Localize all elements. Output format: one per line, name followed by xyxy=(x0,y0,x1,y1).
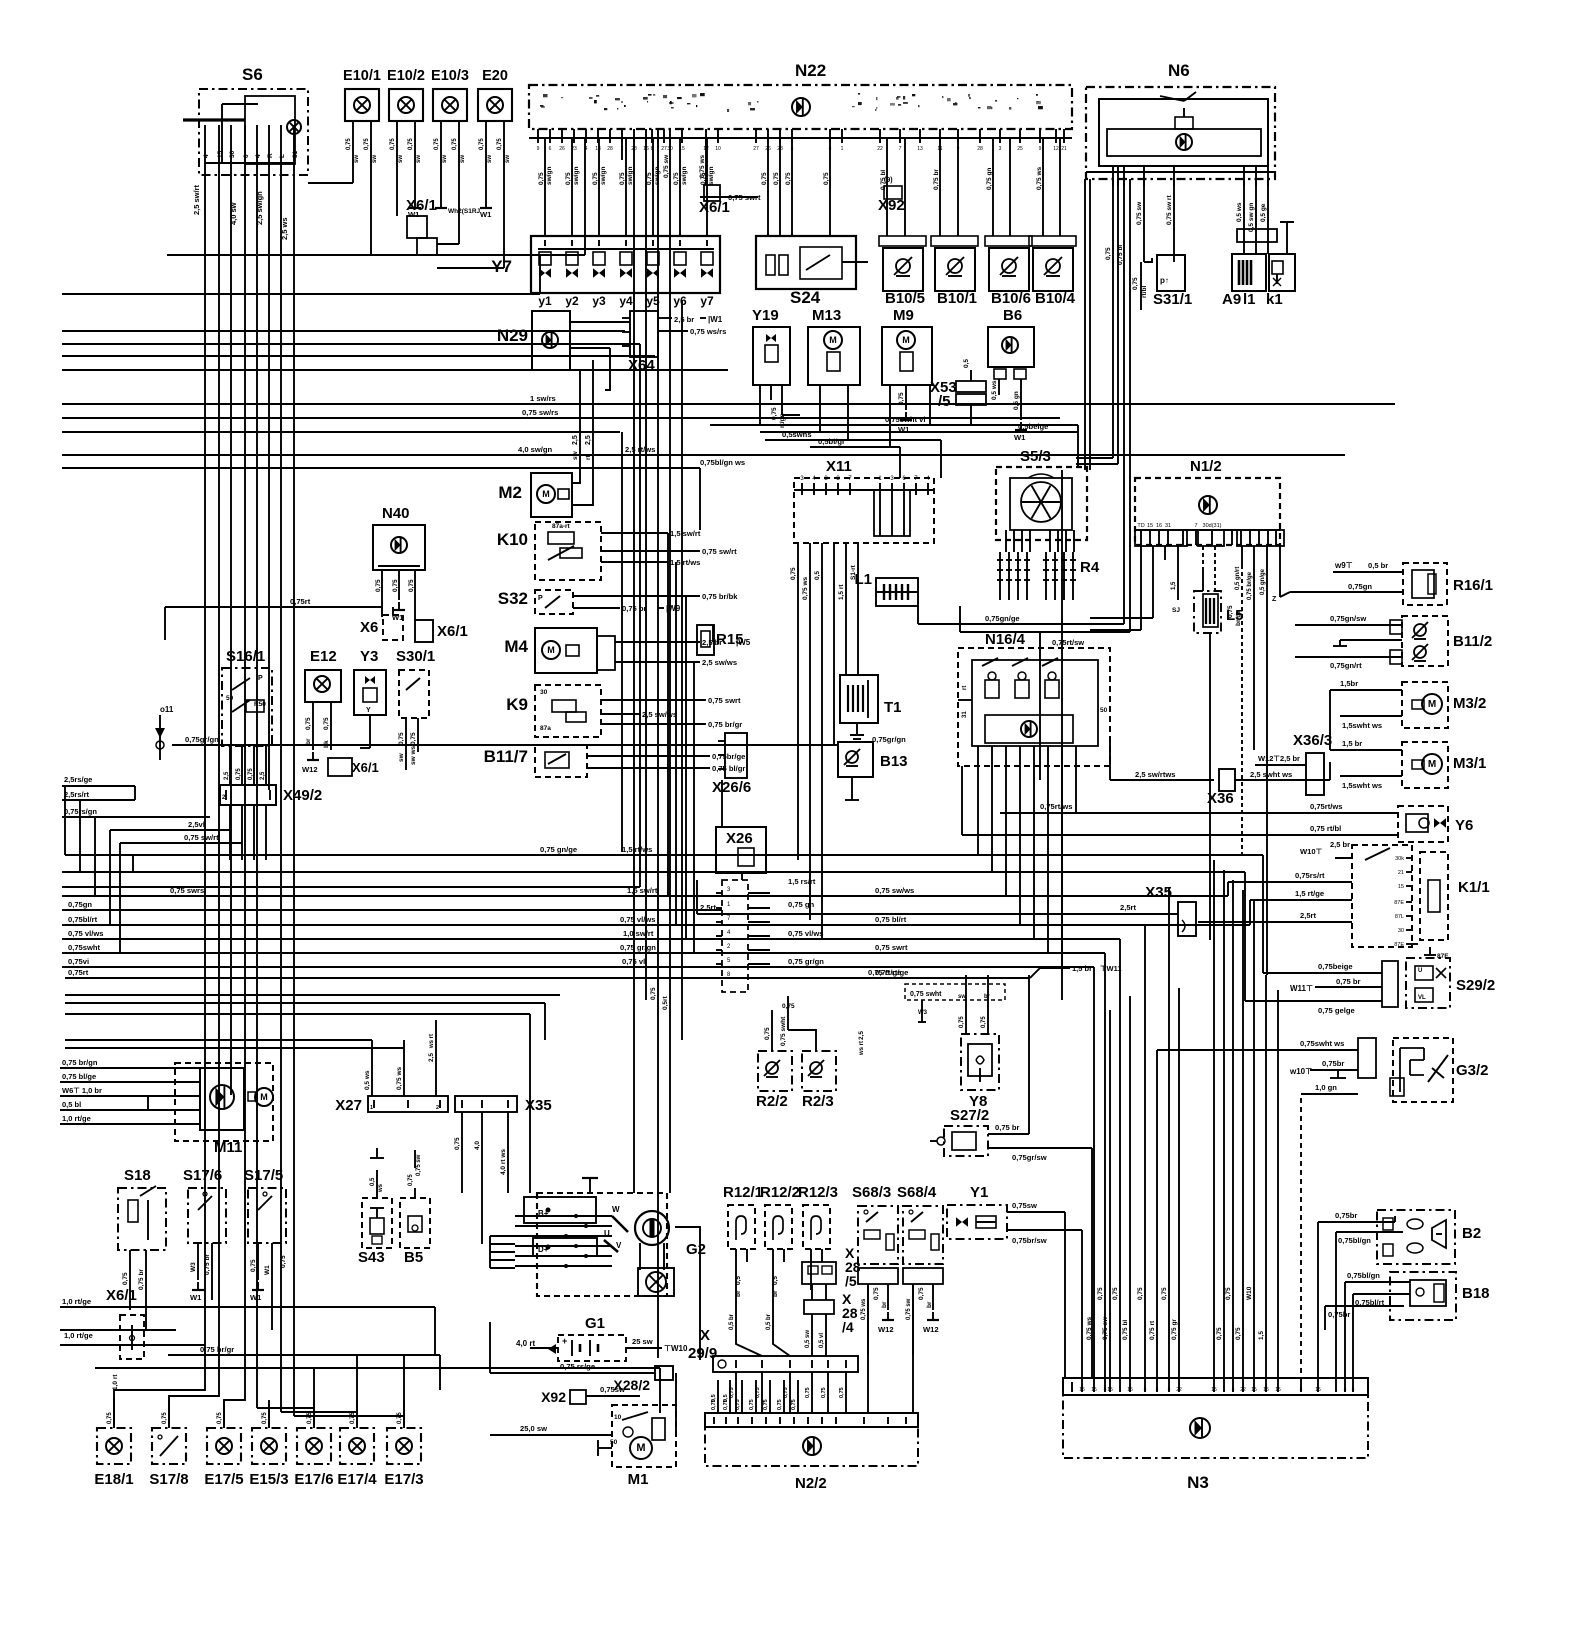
svg-text:R15: R15 xyxy=(716,631,744,648)
svg-text:0,75: 0,75 xyxy=(782,1003,795,1010)
svg-text:M9: M9 xyxy=(893,307,914,324)
svg-text:2,5 sw/ws: 2,5 sw/ws xyxy=(642,710,677,719)
svg-text:R12/1: R12/1 xyxy=(723,1184,763,1201)
svg-text:W10: W10 xyxy=(1246,1286,1253,1300)
svg-text:0,75: 0,75 xyxy=(497,138,503,150)
svg-text:0,75 gn/ge: 0,75 gn/ge xyxy=(540,845,577,854)
svg-text:0,75 bl/gr: 0,75 bl/gr xyxy=(712,764,745,773)
svg-text:P: P xyxy=(258,675,263,682)
svg-text:0,75swht ws: 0,75swht ws xyxy=(1300,1039,1344,1048)
svg-text:15: 15 xyxy=(1147,523,1153,529)
svg-text:0,5 gn/ge: 0,5 gn/ge xyxy=(1260,568,1266,595)
svg-text:2,5rt: 2,5rt xyxy=(1120,903,1137,912)
svg-text:S16/1: S16/1 xyxy=(226,648,265,665)
svg-text:0,75: 0,75 xyxy=(1097,1287,1104,1300)
svg-text:9: 9 xyxy=(957,146,960,152)
svg-text:28: 28 xyxy=(777,146,783,152)
svg-text:0,75gn/rt: 0,75gn/rt xyxy=(1330,661,1362,670)
svg-text:11: 11 xyxy=(937,146,942,152)
svg-text:16: 16 xyxy=(643,146,649,152)
svg-text:S24: S24 xyxy=(790,288,821,307)
svg-text:0,75 ws: 0,75 ws xyxy=(1086,1316,1093,1340)
svg-text:0,75 vl/ws: 0,75 vl/ws xyxy=(620,915,655,924)
svg-text:4,0 rt: 4,0 rt xyxy=(516,1339,535,1348)
svg-text:0,75beige: 0,75beige xyxy=(1318,962,1353,971)
svg-text:0,75 br/gn: 0,75 br/gn xyxy=(62,1058,98,1067)
svg-text:0,75: 0,75 xyxy=(839,1387,845,1398)
svg-text:sw/gn: sw/gn xyxy=(546,167,553,185)
svg-text:23: 23 xyxy=(571,146,577,152)
svg-text:M3/1: M3/1 xyxy=(1453,755,1486,772)
svg-text:0,75: 0,75 xyxy=(392,579,399,592)
svg-text:25 sw: 25 sw xyxy=(632,1337,653,1346)
svg-text:S17/5: S17/5 xyxy=(244,1167,283,1184)
svg-text:y4: y4 xyxy=(619,294,633,308)
svg-text:0,75vi: 0,75vi xyxy=(68,957,89,966)
svg-text:0,75: 0,75 xyxy=(122,1272,129,1285)
svg-text:1,0 sw/rt: 1,0 sw/rt xyxy=(623,929,654,938)
svg-text:W11⊤: W11⊤ xyxy=(1290,984,1313,993)
svg-text:M1: M1 xyxy=(628,1471,649,1488)
svg-text:2,5: 2,5 xyxy=(224,771,230,780)
svg-text:0,75: 0,75 xyxy=(785,172,792,185)
svg-text:0,75: 0,75 xyxy=(619,172,626,185)
svg-text:sw: sw xyxy=(442,155,448,163)
svg-text:M: M xyxy=(636,1442,645,1454)
svg-text:30k: 30k xyxy=(1395,856,1404,862)
svg-text:sw: sw xyxy=(354,155,360,163)
svg-text:M: M xyxy=(542,489,550,499)
svg-text:0,75 ws: 0,75 ws xyxy=(802,576,809,600)
svg-text:sw/gn: sw/gn xyxy=(627,167,634,185)
svg-text:2,5 sw/rt: 2,5 sw/rt xyxy=(192,184,201,215)
svg-text:0,5 gn/rt: 0,5 gn/rt xyxy=(1235,567,1241,590)
svg-text:4: 4 xyxy=(585,146,588,152)
svg-text:0,75bl/rt: 0,75bl/rt xyxy=(68,915,98,924)
svg-text:1,0 rt: 1,0 rt xyxy=(112,1374,119,1390)
svg-text:0,75 bl: 0,75 bl xyxy=(1122,1320,1129,1340)
svg-text:0,5 ws: 0,5 ws xyxy=(364,1070,371,1090)
svg-text:2,5rs/ge: 2,5rs/ge xyxy=(64,775,92,784)
svg-text:0,75: 0,75 xyxy=(777,1399,783,1410)
svg-text:0,75: 0,75 xyxy=(217,1412,223,1424)
svg-text:W1: W1 xyxy=(1014,433,1026,442)
svg-text:V: V xyxy=(616,1241,622,1250)
svg-text:S31/1: S31/1 xyxy=(1153,291,1192,308)
svg-text:S68/4: S68/4 xyxy=(897,1184,937,1201)
svg-text:30d(31): 30d(31) xyxy=(1203,523,1222,529)
svg-text:Wh2(S1RJ: Wh2(S1RJ xyxy=(448,208,481,215)
svg-text:E10/3: E10/3 xyxy=(431,68,469,84)
svg-text:X6/1: X6/1 xyxy=(406,197,437,214)
svg-text:1,0 rt/ge: 1,0 rt/ge xyxy=(62,1297,91,1306)
svg-text:0,75swht: 0,75swht xyxy=(68,943,101,952)
svg-text:B2: B2 xyxy=(1462,1225,1481,1242)
svg-text:0,75br: 0,75br xyxy=(1328,1310,1350,1319)
svg-text:0,5 ws: 0,5 ws xyxy=(991,380,998,400)
svg-text:0,75 rt: 0,75 rt xyxy=(1149,1320,1156,1340)
svg-text:U: U xyxy=(1418,968,1422,974)
svg-text:B11/2: B11/2 xyxy=(1453,633,1492,650)
svg-text:0: 0 xyxy=(243,154,250,158)
svg-text:o11: o11 xyxy=(160,705,174,714)
svg-text:VL: VL xyxy=(1418,995,1426,1001)
svg-text:0,75: 0,75 xyxy=(408,1174,414,1186)
svg-text:21: 21 xyxy=(1398,870,1404,876)
svg-text:2,5: 2,5 xyxy=(428,1053,435,1062)
svg-text:0,75: 0,75 xyxy=(764,1027,771,1040)
svg-text:A9: A9 xyxy=(1222,291,1241,308)
svg-text:2,5 br: 2,5 br xyxy=(674,315,694,324)
svg-text:X92: X92 xyxy=(878,197,905,214)
svg-text:0,75 br: 0,75 br xyxy=(204,1254,211,1275)
svg-text:0,75: 0,75 xyxy=(1132,277,1139,290)
svg-text:27: 27 xyxy=(661,146,667,152)
svg-text:15: 15 xyxy=(1127,1387,1133,1393)
svg-text:l1: l1 xyxy=(1243,291,1256,308)
svg-text:0,75: 0,75 xyxy=(397,1412,403,1424)
svg-text:10: 10 xyxy=(715,146,721,152)
svg-text:0,75 sw: 0,75 sw xyxy=(663,154,670,178)
svg-text:y2: y2 xyxy=(565,294,579,308)
svg-text:0,75: 0,75 xyxy=(1227,605,1234,618)
svg-text:0,75: 0,75 xyxy=(761,172,768,185)
svg-text:sw ws: sw ws xyxy=(410,745,417,765)
svg-text:y1: y1 xyxy=(538,294,552,308)
svg-text:0,75: 0,75 xyxy=(390,138,396,150)
svg-text:/5: /5 xyxy=(938,393,951,410)
svg-text:1: 1 xyxy=(841,146,844,152)
svg-text:15: 15 xyxy=(1091,1387,1097,1393)
svg-text:U: U xyxy=(604,1229,610,1238)
svg-text:1: 1 xyxy=(1223,1387,1226,1393)
svg-text:S18: S18 xyxy=(124,1167,151,1184)
svg-text:0,5: 0,5 xyxy=(814,571,821,580)
svg-text:2,5: 2,5 xyxy=(858,1031,865,1040)
svg-text:2,5 sw/ws: 2,5 sw/ws xyxy=(702,658,737,667)
svg-text:0,75 br: 0,75 br xyxy=(995,1123,1020,1132)
svg-text:0,75: 0,75 xyxy=(592,172,599,185)
svg-text:X26: X26 xyxy=(726,830,753,847)
svg-text:0,75 sw: 0,75 sw xyxy=(906,1298,912,1320)
svg-text:0,75 gr: 0,75 gr xyxy=(1171,1319,1178,1340)
svg-text:15: 15 xyxy=(1251,1387,1257,1393)
svg-text:25: 25 xyxy=(1017,146,1023,152)
svg-text:/5: /5 xyxy=(845,1273,857,1289)
svg-text:0,75 swht: 0,75 swht xyxy=(910,991,942,998)
svg-text:1,0 rt/ge: 1,0 rt/ge xyxy=(64,1331,93,1340)
svg-text:1,5br: 1,5br xyxy=(1340,679,1358,688)
svg-text:15: 15 xyxy=(1275,1387,1281,1393)
svg-text:22: 22 xyxy=(877,146,883,152)
svg-text:sw: sw xyxy=(372,155,378,163)
svg-text:0,5rt: 0,5rt xyxy=(662,995,669,1010)
svg-text:8: 8 xyxy=(1156,1387,1159,1393)
svg-text:0,75: 0,75 xyxy=(323,717,330,730)
svg-text:0,75 bl: 0,75 bl xyxy=(1117,245,1124,265)
svg-text:0,75: 0,75 xyxy=(408,579,415,592)
svg-text:2: 2 xyxy=(436,1105,439,1111)
svg-text:N40: N40 xyxy=(382,505,410,522)
svg-text:8: 8 xyxy=(1344,1387,1347,1393)
svg-text:87E: 87E xyxy=(1394,900,1404,906)
svg-text:0,75: 0,75 xyxy=(408,138,414,150)
svg-text:sw: sw xyxy=(958,994,966,1000)
svg-text:4,0 rt ws: 4,0 rt ws xyxy=(500,1149,507,1175)
svg-text:br: br xyxy=(926,1301,933,1308)
svg-text:SJ: SJ xyxy=(1172,607,1180,614)
svg-text:W3: W3 xyxy=(918,1010,928,1016)
svg-text:0,75: 0,75 xyxy=(1225,1287,1232,1300)
svg-text:1,5: 1,5 xyxy=(1258,1331,1265,1340)
svg-text:30: 30 xyxy=(1398,928,1404,934)
svg-text:0,75: 0,75 xyxy=(790,567,797,580)
svg-text:sw: sw xyxy=(398,155,404,163)
svg-text:0,75: 0,75 xyxy=(1137,1287,1144,1300)
svg-text:P: P xyxy=(538,595,543,602)
svg-text:⊤W10: ⊤W10 xyxy=(664,1344,688,1353)
svg-text:E17/3: E17/3 xyxy=(384,1471,423,1488)
svg-text:X27: X27 xyxy=(335,1097,362,1114)
svg-text:S68/3: S68/3 xyxy=(852,1184,891,1201)
svg-text:0,75: 0,75 xyxy=(1105,247,1112,260)
svg-text:B13: B13 xyxy=(880,753,908,770)
svg-text:0,75: 0,75 xyxy=(1216,1327,1223,1340)
svg-text:W12⊤2,5 br: W12⊤2,5 br xyxy=(1258,754,1300,763)
svg-text:31: 31 xyxy=(962,711,968,718)
svg-text:M: M xyxy=(260,1092,268,1102)
svg-text:8: 8 xyxy=(1352,1387,1355,1393)
svg-text:T1: T1 xyxy=(884,699,902,716)
svg-text:0,5swhs: 0,5swhs xyxy=(782,430,812,439)
svg-text:0,75: 0,75 xyxy=(250,1259,257,1272)
svg-text:0,75 br: 0,75 br xyxy=(138,1269,145,1290)
svg-text:0,75: 0,75 xyxy=(375,579,382,592)
svg-text:87a: 87a xyxy=(540,725,551,732)
svg-text:0,75: 0,75 xyxy=(236,768,242,780)
svg-text:0,5 bl: 0,5 bl xyxy=(62,1100,81,1109)
svg-text:br ge: br ge xyxy=(1235,610,1242,626)
svg-text:0,75br: 0,75br xyxy=(1322,1059,1344,1068)
svg-text:0,75 sw: 0,75 sw xyxy=(416,1154,422,1176)
svg-text:0,75rt/ws: 0,75rt/ws xyxy=(1310,802,1343,811)
svg-text:0,75: 0,75 xyxy=(791,1399,797,1410)
svg-text:15: 15 xyxy=(679,146,685,152)
svg-text:0,75: 0,75 xyxy=(918,1287,925,1300)
svg-text:0,75gr/sw: 0,75gr/sw xyxy=(1012,1153,1047,1162)
svg-text:y6: y6 xyxy=(673,294,687,308)
svg-text:rt/bl: rt/bl xyxy=(1141,286,1148,298)
svg-text:y3: y3 xyxy=(592,294,606,308)
svg-text:0,5: 0,5 xyxy=(370,1177,376,1186)
svg-text:15: 15 xyxy=(217,150,224,158)
svg-text:B10/4: B10/4 xyxy=(1035,290,1076,307)
svg-text:0,75rs/rt: 0,75rs/rt xyxy=(1295,871,1325,880)
svg-text:0,5 vl: 0,5 vl xyxy=(819,1333,825,1348)
svg-text:25,0 sw: 25,0 sw xyxy=(520,1424,547,1433)
svg-text:22: 22 xyxy=(1240,1387,1246,1393)
svg-text:S32: S32 xyxy=(498,589,528,608)
svg-text:0,75 sw rt: 0,75 sw rt xyxy=(1166,195,1173,225)
svg-text:26: 26 xyxy=(765,146,771,152)
svg-text:0,75 sw: 0,75 sw xyxy=(1102,1316,1109,1340)
svg-text:0,75: 0,75 xyxy=(307,1412,313,1424)
svg-text:2,5rt: 2,5rt xyxy=(1300,911,1317,920)
svg-text:12: 12 xyxy=(1053,146,1059,152)
svg-text:Z: Z xyxy=(1272,596,1277,603)
svg-text:0,75 br/gr: 0,75 br/gr xyxy=(708,720,742,729)
svg-text:br: br xyxy=(984,994,991,1000)
svg-text:W6⊤ 1,0 br: W6⊤ 1,0 br xyxy=(62,1086,102,1095)
svg-text:w10⊤: w10⊤ xyxy=(1289,1067,1312,1076)
svg-text:Y7: Y7 xyxy=(491,257,512,276)
svg-text:28: 28 xyxy=(631,146,637,152)
svg-text:0,75 vl/ws: 0,75 vl/ws xyxy=(68,929,103,938)
svg-text:0,75 ws/rs: 0,75 ws/rs xyxy=(690,327,726,336)
svg-text:0,5 br: 0,5 br xyxy=(766,1313,772,1330)
svg-text:TD: TD xyxy=(1137,523,1144,529)
svg-text:X36: X36 xyxy=(1207,790,1234,807)
svg-text:k1: k1 xyxy=(1266,291,1283,308)
svg-text:B11/7: B11/7 xyxy=(484,747,528,766)
svg-text:87a-rt: 87a-rt xyxy=(552,523,571,530)
svg-text:N6: N6 xyxy=(1168,61,1190,80)
svg-text:0,75br: 0,75br xyxy=(1335,1211,1357,1220)
svg-text:W1: W1 xyxy=(480,210,492,219)
svg-text:6: 6 xyxy=(549,146,552,152)
svg-text:0,75bl/gn ws: 0,75bl/gn ws xyxy=(700,458,745,467)
svg-text:S27/2: S27/2 xyxy=(950,1107,989,1124)
svg-text:W12: W12 xyxy=(302,765,318,774)
svg-text:0,75rt/sw: 0,75rt/sw xyxy=(1052,638,1084,647)
svg-text:1: 1 xyxy=(370,1105,373,1111)
svg-text:0,75 ws: 0,75 ws xyxy=(861,1298,867,1320)
svg-text:0,75 bl/ge: 0,75 bl/ge xyxy=(62,1072,96,1081)
svg-text:R4: R4 xyxy=(1080,559,1100,576)
svg-text:1,5: 1,5 xyxy=(1171,581,1177,590)
svg-text:0,75rt/ws: 0,75rt/ws xyxy=(1040,802,1073,811)
svg-text:0,75: 0,75 xyxy=(959,1016,965,1028)
svg-text:X49/2: X49/2 xyxy=(283,787,322,804)
svg-text:50: 50 xyxy=(1100,707,1108,714)
svg-text:1,5 br: 1,5 br xyxy=(1072,964,1092,973)
svg-text:0,75: 0,75 xyxy=(262,1412,268,1424)
svg-text:8: 8 xyxy=(1144,1387,1147,1393)
svg-text:S29/2: S29/2 xyxy=(1456,977,1495,994)
svg-text:br: br xyxy=(881,1301,888,1308)
svg-text:1,0 rt/ge: 1,0 rt/ge xyxy=(62,1114,91,1123)
svg-text:0,75br/sw: 0,75br/sw xyxy=(1012,1236,1047,1245)
svg-text:15: 15 xyxy=(1315,1387,1321,1393)
svg-text:0,75bl/gn: 0,75bl/gn xyxy=(1338,1236,1371,1245)
svg-text:0,75 gelge: 0,75 gelge xyxy=(1318,1006,1355,1015)
svg-text:0,75: 0,75 xyxy=(410,732,417,745)
svg-text:M11: M11 xyxy=(214,1139,242,1156)
svg-text:8: 8 xyxy=(1104,1387,1107,1393)
svg-text:K1/1: K1/1 xyxy=(1458,879,1490,896)
svg-text:2,5: 2,5 xyxy=(572,435,579,445)
svg-text:R2/2: R2/2 xyxy=(756,1093,788,1110)
svg-text:15: 15 xyxy=(1263,1387,1269,1393)
svg-text:0,75: 0,75 xyxy=(823,172,830,185)
svg-text:2,5rt: 2,5rt xyxy=(700,903,717,912)
svg-text:S30/1: S30/1 xyxy=(396,648,435,665)
svg-text:15: 15 xyxy=(1211,1387,1217,1393)
svg-text:0,5 br: 0,5 br xyxy=(1368,561,1388,570)
svg-text:2: 2 xyxy=(621,146,624,152)
svg-text:4: 4 xyxy=(255,154,262,158)
svg-text:0,75: 0,75 xyxy=(248,768,254,780)
svg-text:0,75sw: 0,75sw xyxy=(1012,1201,1037,1210)
svg-text:X6/1: X6/1 xyxy=(352,760,379,775)
svg-text:1,5 rs/rt: 1,5 rs/rt xyxy=(788,877,816,886)
svg-text:W: W xyxy=(612,1205,620,1214)
svg-text:M4: M4 xyxy=(504,637,528,656)
svg-text:0,75 gr/gn: 0,75 gr/gn xyxy=(788,957,824,966)
svg-text:8: 8 xyxy=(829,146,832,152)
svg-text:M3/2: M3/2 xyxy=(1453,695,1486,712)
svg-text:E15/3: E15/3 xyxy=(249,1471,288,1488)
svg-text:B10/1: B10/1 xyxy=(937,290,977,307)
svg-text:ws: ws xyxy=(378,1183,384,1193)
svg-text:0,75: 0,75 xyxy=(538,172,545,185)
svg-text:7: 7 xyxy=(899,146,902,152)
svg-text:0,75: 0,75 xyxy=(729,1387,735,1398)
svg-text:87E: 87E xyxy=(1394,942,1404,948)
svg-text:B10/5: B10/5 xyxy=(885,290,925,307)
svg-text:1,5swht ws: 1,5swht ws xyxy=(1342,721,1382,730)
svg-text:R12/2: R12/2 xyxy=(760,1184,800,1201)
svg-text:0,75: 0,75 xyxy=(981,1016,987,1028)
svg-text:16: 16 xyxy=(1156,523,1162,529)
svg-text:0,75rt: 0,75rt xyxy=(290,597,311,606)
svg-text:0,5: 0,5 xyxy=(735,1276,742,1285)
svg-text:0,75: 0,75 xyxy=(749,1399,755,1410)
svg-text:0,75swht vi: 0,75swht vi xyxy=(885,415,926,424)
svg-text:G3/2: G3/2 xyxy=(1456,1062,1489,1079)
svg-text:S43: S43 xyxy=(358,1249,385,1266)
svg-text:R: R xyxy=(267,153,274,158)
svg-text:0,75: 0,75 xyxy=(1235,1327,1242,1340)
svg-text:M: M xyxy=(829,335,837,345)
svg-text:E17/5: E17/5 xyxy=(204,1471,243,1488)
svg-text:0,75gr/gn: 0,75gr/gn xyxy=(185,735,219,744)
svg-text:0,75: 0,75 xyxy=(305,717,312,730)
svg-text:/4: /4 xyxy=(842,1319,854,1335)
svg-text:0,5: 0,5 xyxy=(711,1394,717,1402)
svg-text:0,75gn/ge: 0,75gn/ge xyxy=(985,614,1020,623)
svg-text:sw/gn: sw/gn xyxy=(573,167,580,185)
svg-text:sw: sw xyxy=(487,155,493,163)
svg-text:1,5 br: 1,5 br xyxy=(1342,739,1362,748)
svg-text:12: 12 xyxy=(703,146,709,152)
svg-text:15: 15 xyxy=(1107,1387,1113,1393)
svg-text:ws rt: ws rt xyxy=(859,1041,865,1056)
svg-text:0,75 br/ge: 0,75 br/ge xyxy=(1247,571,1253,600)
svg-text:sw/gn: sw/gn xyxy=(600,167,607,185)
svg-text:B18: B18 xyxy=(1462,1285,1490,1302)
svg-text:0,75 rs/ge: 0,75 rs/ge xyxy=(560,1362,595,1371)
svg-text:S17/6: S17/6 xyxy=(183,1167,222,1184)
svg-text:Y19: Y19 xyxy=(752,307,779,324)
svg-text:0,75gn: 0,75gn xyxy=(1348,582,1372,591)
svg-text:2,5rs/rt: 2,5rs/rt xyxy=(64,790,90,799)
svg-text:50: 50 xyxy=(226,695,234,702)
svg-text:X6/1: X6/1 xyxy=(106,1287,137,1304)
svg-text:0,75: 0,75 xyxy=(350,1412,356,1424)
svg-text:0,75 bl/rt: 0,75 bl/rt xyxy=(875,915,907,924)
svg-text:0,5: 0,5 xyxy=(772,1276,779,1285)
